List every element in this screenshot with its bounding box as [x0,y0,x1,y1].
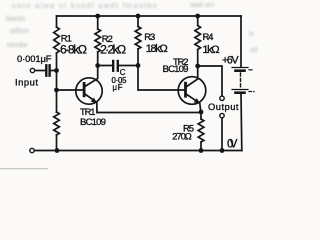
wire: +V top rail [57,15,242,17]
TR1 base lead [57,89,83,91]
svg-text:BC109: BC109 [163,64,189,75]
TR1 emitter [85,94,97,112]
wire: R3 to node and down to TR2 base [138,49,184,90]
node: top rail / R4 [195,14,200,19]
svg-text:1kΩ: 1kΩ [202,44,219,56]
svg-text:nexdw: nexdw [7,42,28,49]
node: TR2 emitter / R5 / link wire [199,110,204,115]
open terminals [30,68,224,152]
wire: cap to node [51,70,57,72]
node: C / R3 / TR2 base [136,63,141,68]
resistor (lower left, unlabeled) [54,112,60,135]
transistor Q1 TR1 circle [76,78,102,104]
wire: emitter link TR1-TR2 [97,112,201,114]
battery cell2 long plate [232,89,248,91]
TR2 base bar [184,83,187,96]
wire: R2 to collector node [97,52,99,66]
svg-text:18kΩ: 18kΩ [146,43,168,55]
svg-text:sd: sd [250,47,258,54]
svg-text:270Ω: 270Ω [172,130,192,141]
TR1 collector [85,66,97,87]
wire: battery top lead [240,16,242,67]
wire: input lead [35,70,46,72]
battery cell2 short plate [236,91,245,94]
TR1 base bar [83,83,86,95]
TR1 emitter arrow [91,98,97,104]
node: R4 / TR2 collector / output [195,64,200,69]
terminal: ground left [30,148,34,152]
terminal: input [30,68,34,72]
svg-text:Input: Input [15,77,38,88]
terminal: output lower [220,113,224,117]
svg-text:0·001μF: 0·001μF [17,53,52,64]
resistor R5 [198,119,204,142]
wire: R4 to collector node [197,50,199,67]
battery inter-cell dashed wire [240,73,242,88]
TR2 emitter [187,95,201,113]
battery cell1 short plate [236,69,245,72]
resistor R4 [195,26,201,50]
wire: 0V bottom rail [34,150,242,152]
wire: output lower terminal to 0V rail [221,118,223,151]
wire: R2 branch [97,16,99,29]
svg-text:TR1: TR1 [80,106,96,117]
node: top rail / R2 [95,14,100,19]
svg-text:Output: Output [208,101,239,112]
node: input cap / left column [54,68,59,73]
svg-text:R4: R4 [203,31,214,42]
svg-text:6·8kΩ: 6·8kΩ [60,42,87,56]
svg-text:iv: iv [249,31,255,38]
svg-text:2·2kΩ: 2·2kΩ [100,42,126,56]
resistor R3 [135,27,141,50]
node: bottom rail / output ground [220,148,225,153]
svg-text:R3: R3 [144,31,155,42]
battery minus tick cell1 [249,69,252,71]
battery B1 cell1 long plate [232,67,248,69]
wire: R5 top lead [200,112,202,119]
faint page line bottom-left [0,168,48,169]
node: bottom rail / R5 [199,148,204,153]
svg-text:+6V: +6V [222,54,240,66]
node: top rail / R3 [136,14,141,19]
capacitor 0.001uF plates [45,65,47,75]
wire: collector node to output upper terminal [198,66,222,96]
bleed-through smudges (decorative) [6,2,258,54]
wire: R4 branch [197,16,199,26]
node: bottom rail / lower resistor [55,148,60,153]
paper background [0,0,264,173]
svg-text:BC109: BC109 [80,117,106,128]
wire: left column mid [56,53,58,112]
node: R2 / C / TR1 collector [95,63,100,68]
node: TR1 base / left column [54,88,59,93]
wire: left column bottom [56,135,58,151]
battery minus tick cell2 [249,91,252,93]
resistor R2 [95,29,101,52]
capacitor C plates [112,61,114,71]
svg-text:awd orv: awd orv [190,2,215,9]
wire: battery bottom lead [240,94,243,151]
wire: left column R1 lead top [56,16,58,27]
wire: capacitor C to R3 node [119,65,138,67]
svg-text:μF: μF [113,83,123,92]
svg-text:bwreh: bwreh [6,16,25,23]
terminal: output upper [220,96,224,100]
wire: node to capacitor C [98,65,112,67]
TR2 emitter arrow [194,98,201,104]
svg-text:uote aiwa st bnsdl awdt fmastb: uote aiwa st bnsdl awdt fmastbo [12,3,158,10]
svg-text:0V: 0V [227,138,238,151]
TR2 collector [187,66,198,86]
wire: R3 branch [137,16,139,27]
svg-text:adlnm: adlnm [10,28,29,35]
transistor Q2 TR2 circle [178,77,206,105]
wire: R5 bottom lead [200,142,202,151]
resistor R1 [54,27,60,53]
